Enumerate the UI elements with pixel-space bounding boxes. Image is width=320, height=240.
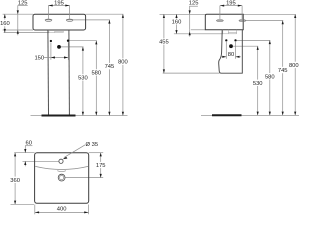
dim line 530 (front) (82, 47, 84, 116)
svg-text:400: 400 (57, 206, 67, 212)
dim line 745 (front) (108, 20, 110, 116)
wire: fixing-hole extension right to 580 line (69, 40, 97, 42)
dim 125 (side top) (189, 6, 198, 36)
fixing hole right (dot) (67, 40, 69, 42)
pedestal right edge (68, 30, 71, 116)
wire: tap-axis extension right to 745 line (73, 19, 110, 21)
svg-text:175: 175 (96, 163, 106, 169)
dim line 580 (front) (95, 41, 97, 116)
dim 195 (front top) (48, 6, 69, 20)
svg-text:Ø 35: Ø 35 (86, 142, 99, 148)
overflow notch curve (57, 171, 66, 172)
dim line 580 (side) (269, 40, 271, 115)
back hole slot (side) (239, 20, 246, 22)
dim line 745 (side) (282, 21, 284, 116)
floor line front (thin) (31, 115, 128, 117)
dim 125 (front top) (18, 6, 28, 36)
svg-text:800: 800 (118, 60, 128, 66)
svg-text:580: 580 (265, 74, 275, 80)
leader Ø35 (64, 145, 85, 158)
fixing hole front dot (side) (225, 39, 227, 41)
tap hole slot left (45, 19, 52, 21)
wire: notch-bottom extension left (side) (174, 33, 223, 35)
svg-text:125: 125 (18, 1, 28, 7)
pedestal left edge (47, 30, 50, 116)
svg-text:160: 160 (172, 20, 182, 26)
wire: hole-center extension left (plan) (23, 160, 59, 162)
wire: pedestal-bottom extension left for 455 (163, 72, 220, 74)
dim 195 (side top) (220, 6, 242, 20)
dim line 530 (side) (257, 46, 259, 115)
notch under basin (side) (223, 30, 237, 34)
basin side outline (205, 14, 243, 29)
dim 360 (plan left) (14, 153, 16, 205)
tap hole circle (plan) (59, 159, 63, 163)
semi-pedestal outline (side) (219, 30, 243, 73)
svg-text:125: 125 (189, 1, 199, 7)
wire: rim extension right to 800 line (86, 13, 124, 15)
dim 80 (side pedestal holes) (221, 42, 241, 59)
fixing hole back dot (side) (234, 39, 236, 41)
svg-text:530: 530 (253, 81, 263, 87)
wire: basin-bottom extension left (y=30.0) (3, 29, 33, 31)
wire: 400 extension tick right (88, 205, 90, 215)
svg-text:360: 360 (10, 178, 20, 184)
wire: basin-bottom extension left (side) (191, 29, 206, 31)
ground (thick) front (42, 115, 76, 117)
ground (thick) side (212, 114, 242, 116)
svg-text:530: 530 (78, 76, 88, 82)
basin plan outline (35, 153, 89, 204)
wire: tap-axis extension right (side) to 745 (246, 20, 283, 22)
drain circle outer (plan) (58, 174, 65, 181)
inner front ledge curve (35, 166, 88, 169)
drain hole (big dot) (57, 45, 61, 49)
dim 150 (pedestal holes) (43, 42, 68, 60)
tap hole slot right (66, 19, 73, 21)
dim 400 (plan bottom) (35, 211, 89, 213)
pedestal/basin interface notch (49, 30, 63, 33)
wire: back-edge extension right (plan) (89, 152, 104, 154)
dim 60 (plan top-left) (25, 146, 32, 167)
dim 160 (side) (176, 14, 178, 34)
svg-text:195: 195 (54, 0, 64, 6)
wire: 400 extension tick left (34, 205, 36, 215)
floor line side (thin) (201, 115, 299, 117)
drain circle inner (plan) (60, 176, 64, 180)
svg-text:80: 80 (228, 52, 234, 58)
tap hole slot (side) (216, 20, 223, 22)
svg-text:160: 160 (0, 21, 10, 27)
drain dot (side) (229, 44, 233, 48)
dim line 800 (side) (294, 14, 296, 115)
svg-text:195: 195 (226, 1, 236, 7)
wire: front-edge extension left (plan) (11, 203, 35, 205)
svg-text:60: 60 (25, 141, 31, 147)
wire: drain extension right to 530 line (61, 46, 84, 48)
svg-text:150: 150 (34, 55, 44, 61)
svg-text:455: 455 (159, 40, 169, 46)
dim line 800 (front) (122, 14, 124, 115)
dim 455 (side) (163, 14, 165, 73)
wire: drain-center extension right (plan) (65, 177, 103, 179)
dim 175 (plan right) (100, 153, 102, 178)
wire: notch-bottom extension left (y=32.6) (4, 32, 49, 34)
wire: rim extension right (side) to 800 (243, 13, 296, 15)
wire: rim extension left (y=14.2) (3, 13, 33, 15)
svg-text:800: 800 (289, 63, 299, 69)
dim 160 (front left) (4, 14, 6, 32)
svg-text:745: 745 (105, 64, 115, 70)
svg-text:745: 745 (278, 68, 288, 74)
fixing hole left (dot) (50, 40, 52, 42)
basin front outline (33, 14, 86, 30)
wire: rim extension left (side) (160, 13, 206, 15)
wire: back-edge extension left (plan) (14, 152, 34, 154)
wire: drain extension right (side) to 530 (233, 45, 258, 47)
svg-text:580: 580 (91, 71, 101, 77)
wire: hole extension right (side) to 580 (237, 39, 271, 41)
